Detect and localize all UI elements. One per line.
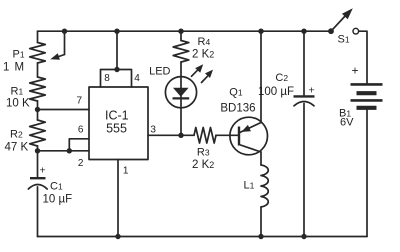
svg-text:2 K2: 2 K2 xyxy=(192,49,214,61)
resistor R2 xyxy=(30,120,46,146)
svg-text:R3: R3 xyxy=(197,147,210,159)
wire rail to R4 xyxy=(180,31,182,40)
node C2 on rail xyxy=(301,29,306,34)
svg-text:P1: P1 xyxy=(13,49,25,61)
node R1 bottom / pin7 tee xyxy=(35,107,40,112)
wire pin 6 xyxy=(69,139,89,151)
wire P1 to R1 xyxy=(37,63,39,77)
LED circle xyxy=(165,77,196,108)
wire C2 to bottom rail xyxy=(303,104,305,237)
svg-text:555: 555 xyxy=(106,122,127,136)
capacitor C2 xyxy=(294,96,315,105)
svg-text:R1: R1 xyxy=(11,86,24,98)
wire rail to C2 xyxy=(303,31,305,95)
wire pin 7 xyxy=(38,109,90,111)
switch S1 pivot node xyxy=(328,28,334,34)
svg-text:Q1: Q1 xyxy=(229,87,243,99)
svg-text:6: 6 xyxy=(78,125,84,136)
wire R4 through LED to pin3 wire xyxy=(180,62,182,135)
node R4 on rail xyxy=(178,29,183,34)
resistor R4 xyxy=(173,41,189,63)
svg-text:BD136: BD136 xyxy=(220,103,255,115)
node R2 bottom / pin2 tee xyxy=(35,148,40,153)
wire pins 8-4 bracket xyxy=(101,70,132,88)
wire R2 to C1 xyxy=(37,146,39,177)
resistor R1 xyxy=(30,77,46,101)
wire pin 2 xyxy=(38,150,90,152)
wire battery to bottom rail xyxy=(366,110,368,237)
svg-text:1: 1 xyxy=(123,166,129,177)
wire Q1 emitter to rail xyxy=(260,31,262,122)
wire pin 3 xyxy=(148,134,194,136)
LED light arrow 2 xyxy=(202,70,214,83)
node pin6 branch xyxy=(67,148,72,153)
capacitor C1 xyxy=(28,178,47,189)
svg-text:1M: 1M xyxy=(3,62,24,74)
node C2 on bottom rail xyxy=(301,234,306,239)
node bracket on rail xyxy=(114,29,119,34)
potentiometer P1 xyxy=(30,43,46,64)
resistor R3 xyxy=(194,128,216,144)
Q1 base bar xyxy=(238,127,240,146)
svg-text:+: + xyxy=(352,64,359,78)
wire S1 to battery column xyxy=(359,31,367,83)
svg-text:3: 3 xyxy=(150,125,156,136)
node pin1 on bottom rail xyxy=(115,234,120,239)
svg-text:C1: C1 xyxy=(50,181,63,193)
svg-text:S1: S1 xyxy=(338,34,350,46)
svg-text:7: 7 xyxy=(77,96,83,107)
wire top supply rail xyxy=(38,30,332,32)
svg-text:2 K2: 2 K2 xyxy=(192,159,214,171)
svg-text:100 µF: 100 µF xyxy=(258,86,294,98)
wire Q1 collector to L1 xyxy=(260,152,262,165)
svg-text:+: + xyxy=(40,165,46,177)
wire L1 to bottom rail xyxy=(260,207,262,237)
transistor Q1 circle xyxy=(230,117,268,155)
wire R1 to R2 xyxy=(37,101,39,120)
svg-text:10 K: 10 K xyxy=(6,98,30,110)
svg-text:6V: 6V xyxy=(340,117,354,129)
svg-text:10 µF: 10 µF xyxy=(43,194,73,206)
switch S1 contact circle xyxy=(353,28,359,34)
svg-text:8: 8 xyxy=(104,73,110,84)
LED cathode bar xyxy=(173,97,190,99)
wire C1 to bottom rail xyxy=(37,187,39,237)
node LED column on pin3 wire xyxy=(178,133,183,138)
wire rail to bracket xyxy=(116,31,118,69)
node L1 on bottom rail xyxy=(258,234,263,239)
svg-text:2: 2 xyxy=(78,158,84,169)
op-amp / timer IC-1 555 body xyxy=(89,87,148,160)
Q1 emitter segment with arrow xyxy=(240,123,261,133)
svg-text:C2: C2 xyxy=(275,72,288,84)
inductor L1 xyxy=(261,165,268,207)
LED light arrow 1 xyxy=(192,64,204,76)
svg-text:R2: R2 xyxy=(10,129,23,141)
wire R3 to Q1 base xyxy=(216,134,238,136)
wire left column top lead xyxy=(37,31,39,42)
node Q1 emitter on rail xyxy=(258,29,263,34)
svg-text:IC-1: IC-1 xyxy=(105,109,129,123)
Q1 collector segment xyxy=(239,145,261,153)
node P1 wiper on rail xyxy=(62,29,67,34)
svg-text:L1: L1 xyxy=(244,180,255,192)
wire pin 1 to ground rail xyxy=(117,160,119,237)
switch S1 lever xyxy=(331,8,353,31)
node bracket top xyxy=(114,67,119,72)
P1 wiper arrow xyxy=(50,31,64,60)
LED triangle xyxy=(173,88,189,97)
svg-text:47 K: 47 K xyxy=(5,142,29,154)
battery B1 xyxy=(351,84,383,107)
wire bottom ground rail xyxy=(38,236,368,238)
svg-text:LED: LED xyxy=(149,66,170,78)
svg-text:4: 4 xyxy=(134,73,140,84)
svg-text:R4: R4 xyxy=(198,36,211,48)
svg-text:+: + xyxy=(309,85,315,97)
